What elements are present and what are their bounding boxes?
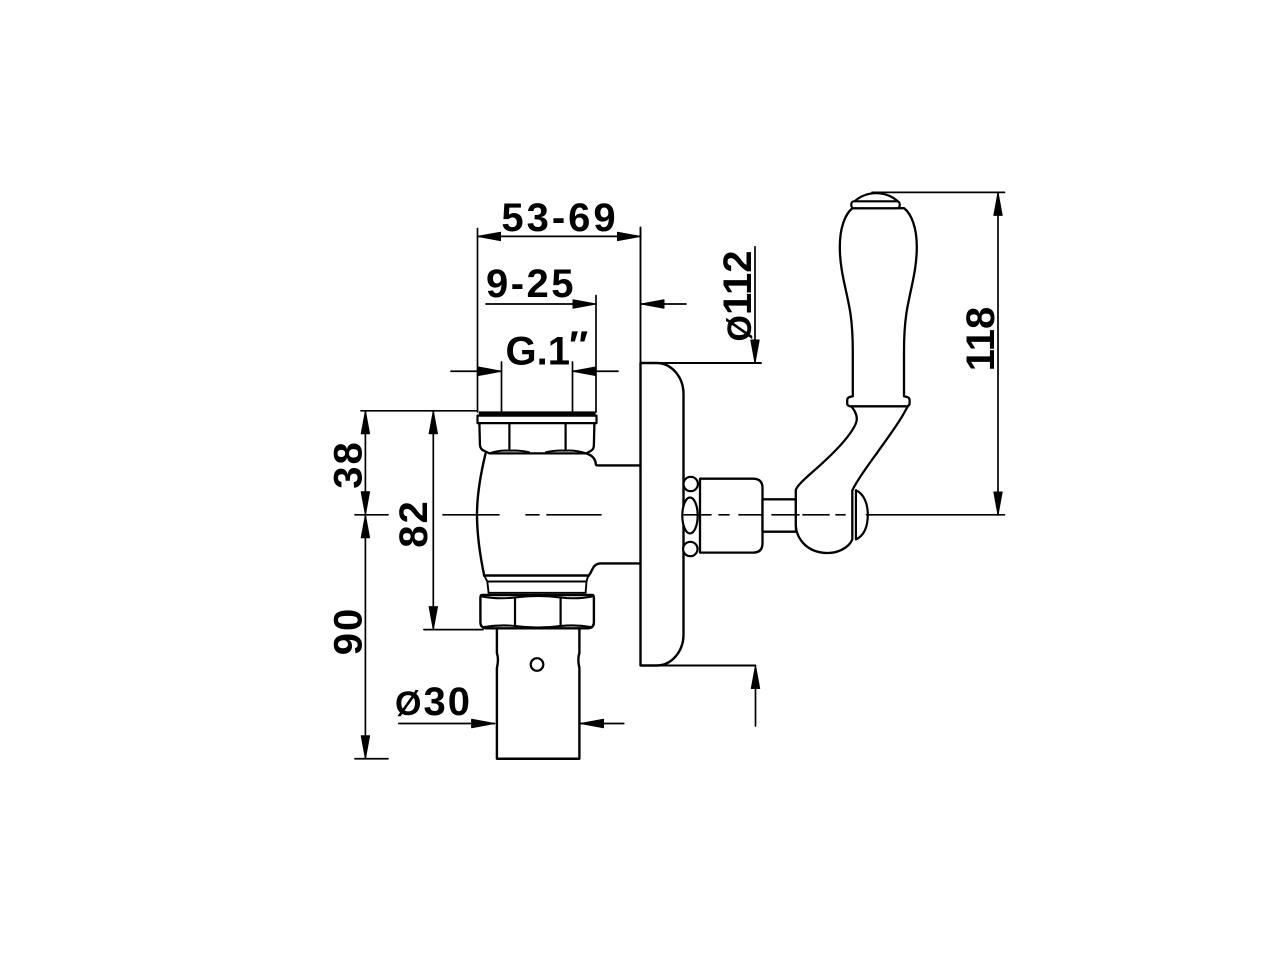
top hex nut right facet line (564, 423, 566, 449)
ring band line 2 (484, 576, 588, 593)
handle collar disc (851, 201, 899, 208)
dim O112 down arrowhead (751, 340, 759, 363)
dim 9-25 right arrowhead (573, 300, 596, 308)
dim 9-25 extension line (595, 296, 597, 413)
ring band line 3 (489, 592, 586, 594)
dim G.1 dimension line right part (573, 370, 619, 372)
dim 38 up arrowhead (361, 411, 369, 434)
svg-text:90: 90 (327, 607, 371, 656)
top hex union nut (479, 423, 594, 453)
dim 9-25 dimension line right part (641, 303, 686, 305)
spindle housing on flange (700, 479, 763, 553)
svg-text:9-25: 9-25 (486, 262, 576, 306)
outlet pipe (497, 628, 580, 758)
valve body (477, 454, 641, 577)
dim O112 lower shaft (755, 672, 757, 726)
svg-text:Ø30: Ø30 (395, 680, 472, 724)
dim 9-25 dimension line left part (486, 303, 596, 305)
dim G.1 right arrowhead (573, 367, 596, 375)
dim G.1 left extension line (501, 362, 503, 412)
packing ball top circle (684, 477, 698, 491)
handle lever arm and boss (796, 404, 909, 554)
dim O30 dimension line left part (399, 723, 495, 725)
dim 53-69 left arrowhead (478, 232, 501, 240)
valve body top gasket (thick washer bar) (479, 411, 596, 415)
top hex nut bottom chamfer arcs (490, 450, 587, 453)
centerline middle segment (through spindle) (684, 514, 845, 516)
packing middle ellipse (682, 498, 697, 534)
dim 53-69 left extension line (477, 229, 479, 413)
svg-text:38: 38 (327, 440, 371, 489)
dim O112 vertical dimension line (754, 247, 756, 362)
dim 118 down arrowhead (994, 492, 1002, 515)
svg-text:82: 82 (392, 499, 436, 548)
dim 90 dimension line (364, 515, 366, 759)
dim O112 top extension line (flange top) (641, 362, 762, 364)
handle top dome (855, 193, 898, 201)
dim 38 down arrowhead (361, 492, 369, 515)
svg-text:″: ″ (569, 324, 588, 368)
wall flange (rosette, side view) (641, 363, 684, 666)
dim 118 top extension line (872, 191, 1005, 193)
dim 90 down arrowhead (361, 736, 369, 759)
dim 38/90 top extension line (361, 410, 478, 412)
dim O30 right arrowhead on left part (472, 719, 495, 727)
dim 90 up arrowhead (361, 515, 369, 538)
dim 82 up arrowhead (429, 411, 437, 434)
dim 82 dimension line (432, 411, 434, 630)
dim O112 bottom extension line (flange bottom) (641, 665, 756, 667)
bottom hex nut bottom facet arcs (484, 625, 591, 627)
packing ball bottom circle (683, 542, 697, 556)
dim 118 up arrowhead (994, 192, 1002, 215)
svg-text:53-69: 53-69 (501, 196, 618, 240)
top hex nut left facet line (508, 423, 510, 449)
dim 118 dimension line (997, 192, 999, 515)
svg-text:Ø112: Ø112 (716, 251, 760, 342)
centerline left segment (through valve body) (443, 514, 601, 516)
dim 9-25 left arrowhead (641, 300, 664, 308)
valve body top collar band (478, 416, 597, 424)
dim 53-69 dimension line (478, 235, 641, 237)
dim 82 bottom extension line (424, 629, 483, 631)
dim 38/90 bottom extension line (355, 758, 388, 760)
dim O30 left arrowhead on right part (581, 719, 604, 727)
bottom hex nut left facet line (514, 598, 516, 627)
handle grip (bulb, stem and skirt) (840, 208, 917, 406)
svg-text:G.1: G.1 (506, 330, 570, 374)
spindle shaft (763, 499, 797, 531)
dim 53-69 / flange-left long extension line (640, 228, 642, 666)
pipe pin hole (531, 658, 544, 671)
bottom hex nut right facet line (559, 598, 561, 627)
centerline right solid segment (118 extension) (867, 514, 1005, 516)
dim G.1 left arrowhead (479, 367, 502, 375)
handle ball end cap (856, 490, 868, 539)
dim G.1 dimension line left part (451, 370, 502, 372)
body bottom edge line (484, 574, 588, 577)
dim G.1 right extension line (572, 362, 574, 412)
dim 53-69 right arrowhead (618, 232, 641, 240)
dim 38/90 middle extension line (355, 514, 388, 516)
dim 82 down arrowhead (429, 607, 437, 630)
bottom hex nut (480, 595, 594, 628)
dim O30 dimension line right part (581, 723, 624, 725)
svg-text:118: 118 (959, 307, 1003, 372)
dim O112 up arrowhead (751, 666, 759, 689)
bottom hex nut top facet arcs (482, 596, 592, 598)
dim 38 dimension line (364, 411, 366, 515)
